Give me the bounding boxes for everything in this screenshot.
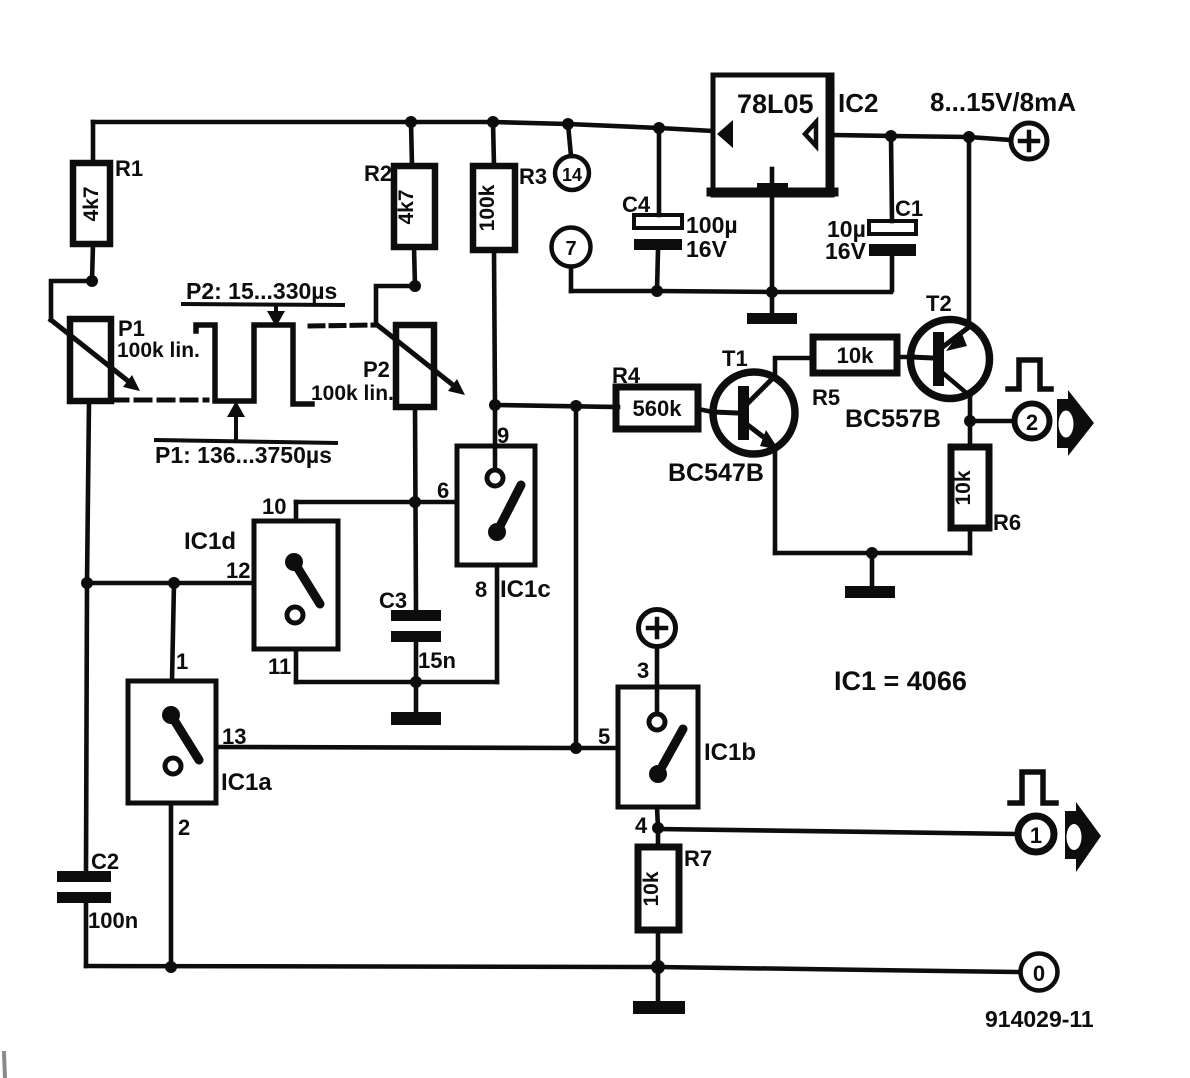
wire R2 bottom xyxy=(414,247,415,286)
wire C1 bottom xyxy=(890,256,895,290)
annotation P1 range xyxy=(155,401,336,468)
transistor T2 BC557B xyxy=(845,291,990,433)
svg-text:P1: P1 xyxy=(118,316,145,341)
svg-text:IC1a: IC1a xyxy=(221,769,272,796)
node junction R3/R4/pin9 xyxy=(489,399,501,411)
svg-text:2: 2 xyxy=(1026,410,1038,435)
svg-text:T2: T2 xyxy=(926,291,952,316)
svg-text:78L05: 78L05 xyxy=(737,89,814,119)
wire C1 top xyxy=(891,136,892,221)
wire C4 bottom xyxy=(657,250,658,291)
svg-text:R2: R2 xyxy=(364,161,392,186)
wire P1 wiper loop xyxy=(51,281,92,320)
svg-text:R1: R1 xyxy=(115,156,143,181)
svg-text:8...15V/8mA: 8...15V/8mA xyxy=(930,87,1076,117)
wire pin1 xyxy=(172,583,174,681)
resistor R1 xyxy=(73,156,143,244)
node junction R2 top xyxy=(405,116,417,128)
wire R6 bottom xyxy=(968,528,973,553)
wire pin4 xyxy=(657,807,658,828)
potentiometer P2 xyxy=(311,324,465,407)
wire scan mark left edge xyxy=(4,1053,5,1078)
resistor R5 xyxy=(812,337,897,410)
output arrow 1 xyxy=(1065,802,1101,872)
svg-text:BC547B: BC547B xyxy=(668,459,764,487)
wire top supply rail xyxy=(93,122,713,131)
ground symbol under R7 xyxy=(633,967,685,1014)
wire pin5 stub xyxy=(576,746,618,751)
wire pin13 rail xyxy=(216,747,576,748)
node + terminal above IC1b xyxy=(639,610,676,647)
node pin 14 terminal xyxy=(555,124,589,190)
svg-text:R6: R6 xyxy=(993,510,1021,535)
output arrow 2 xyxy=(1057,390,1094,456)
svg-text:8: 8 xyxy=(475,577,487,602)
svg-text:C3: C3 xyxy=(379,588,407,613)
capacitor C1 xyxy=(825,196,923,264)
ground symbol under C3 xyxy=(391,682,441,725)
wire R3 top xyxy=(493,122,494,166)
pulse symbol output 2 xyxy=(1008,360,1051,389)
switch IC1c xyxy=(437,423,551,603)
wire pin11 down xyxy=(294,649,299,682)
svg-text:10k: 10k xyxy=(837,343,874,368)
svg-text:4k7: 4k7 xyxy=(395,189,418,224)
svg-text:7: 7 xyxy=(565,238,576,260)
svg-text:0: 0 xyxy=(1033,961,1045,986)
wire pin2 down xyxy=(169,803,174,967)
wire R1 bottom xyxy=(92,244,93,281)
annotation P2 range xyxy=(183,278,343,327)
wire R2 top xyxy=(411,122,412,166)
wire R5 to T2 base xyxy=(897,355,911,360)
svg-text:R3: R3 xyxy=(519,164,547,189)
svg-text:T1: T1 xyxy=(722,346,748,371)
svg-text:100µ: 100µ xyxy=(686,212,738,238)
wire pin3 xyxy=(655,647,660,714)
node junction pin12 xyxy=(81,577,93,589)
wire pin12 rail xyxy=(87,581,254,586)
node junction R7 bottom xyxy=(651,960,665,974)
svg-text:16V: 16V xyxy=(825,238,867,264)
waveform sketch xyxy=(196,325,312,404)
node junction C1 top xyxy=(885,130,897,142)
wire T2 emitter to supply rail xyxy=(967,137,972,326)
node junction pin1 drop xyxy=(168,577,180,589)
node output terminal 0 xyxy=(1021,954,1058,991)
switch IC1a xyxy=(128,649,272,840)
svg-text:914029-11: 914029-11 xyxy=(985,1006,1094,1032)
wire R7 bottom xyxy=(656,930,661,968)
svg-text:2: 2 xyxy=(178,815,190,840)
node junction T2 emitter xyxy=(963,131,975,143)
svg-text:IC2: IC2 xyxy=(838,88,878,118)
svg-text:4: 4 xyxy=(635,813,648,838)
wire R4 to T1 base xyxy=(698,409,713,412)
node junction IC2 gnd xyxy=(766,286,778,298)
capacitor C4 xyxy=(622,192,738,262)
wire left rail to C2 xyxy=(86,583,87,871)
wire C2 bottom to rail corner xyxy=(84,903,89,966)
wire output 1 rail xyxy=(658,829,1017,834)
node pin 7 terminal xyxy=(552,228,591,292)
node junction R2/P2 xyxy=(409,280,421,292)
svg-text:BC557B: BC557B xyxy=(845,405,941,433)
node junction R3 top xyxy=(487,116,499,128)
svg-text:4k7: 4k7 xyxy=(80,186,103,221)
svg-text:R4: R4 xyxy=(612,363,641,388)
wire dashed bottom level xyxy=(113,398,207,403)
wire dashed top level xyxy=(310,325,375,326)
pulse symbol output 1 xyxy=(1010,772,1056,803)
wire T1 emitter down xyxy=(773,449,778,553)
wire R7 top xyxy=(656,828,661,847)
wire R1 top xyxy=(91,122,96,163)
svg-text:C2: C2 xyxy=(91,849,119,874)
svg-text:100k lin.: 100k lin. xyxy=(311,382,394,405)
wire T1 collector to R5 xyxy=(775,358,813,376)
wire C3 bottom xyxy=(414,642,419,682)
svg-text:14: 14 xyxy=(562,165,582,185)
svg-text:C4: C4 xyxy=(622,192,651,217)
wire node to output 2 xyxy=(970,419,1014,424)
svg-text:1: 1 xyxy=(1030,823,1042,848)
capacitor C3 xyxy=(379,588,456,673)
resistor R4 xyxy=(612,363,698,429)
wire IC2 output rail xyxy=(834,135,1011,140)
wire P2 wiper loop xyxy=(376,286,415,324)
svg-text:10k: 10k xyxy=(952,470,975,505)
svg-text:9: 9 xyxy=(497,423,509,448)
wire node to R4 xyxy=(495,405,618,407)
svg-text:100k: 100k xyxy=(476,184,499,231)
svg-text:C1: C1 xyxy=(895,196,923,221)
svg-text:3: 3 xyxy=(637,658,649,683)
svg-text:12: 12 xyxy=(226,558,250,583)
svg-text:10: 10 xyxy=(262,494,286,519)
node junction IC1a pin2 xyxy=(165,961,177,973)
svg-text:R5: R5 xyxy=(812,385,840,410)
wire T2 collector down xyxy=(968,396,973,421)
switch IC1b xyxy=(598,658,756,838)
wire pin6 rail xyxy=(296,500,457,505)
wire pin8 down xyxy=(495,565,500,682)
wire emitter ground rail xyxy=(775,551,970,556)
capacitor C2 xyxy=(57,849,138,933)
node junction C4 gnd xyxy=(651,285,663,297)
resistor R2 xyxy=(364,161,435,247)
svg-text:P1: 136...3750µs: P1: 136...3750µs xyxy=(155,442,332,468)
node junction R1/P1 xyxy=(86,275,98,287)
node junction pin5 drop xyxy=(570,400,582,412)
wire R3 bottom long xyxy=(494,250,495,405)
wire vertical drop to pin5 xyxy=(574,406,579,748)
node junction pin14 xyxy=(562,118,574,130)
resistor R6 xyxy=(951,447,1021,535)
svg-text:560k: 560k xyxy=(633,396,683,421)
svg-text:16V: 16V xyxy=(686,236,728,262)
svg-text:11: 11 xyxy=(268,654,291,679)
wire P2 bottom to pin6 rail and C3 xyxy=(415,407,416,610)
wire analog ground rail xyxy=(571,291,891,292)
op-amp IC2 78L05 regulator xyxy=(711,75,878,195)
switch IC1d xyxy=(184,494,338,679)
svg-text:6: 6 xyxy=(437,478,449,503)
node junction C4 top xyxy=(653,122,665,134)
wire node to R6 xyxy=(968,421,973,447)
ground symbol T1 emitter xyxy=(845,553,895,598)
wire pin9 xyxy=(493,405,498,470)
svg-text:IC1c: IC1c xyxy=(500,576,551,603)
svg-text:IC1b: IC1b xyxy=(704,739,756,766)
svg-text:P2: 15...330µs: P2: 15...330µs xyxy=(186,278,337,304)
node output terminal 2 xyxy=(1015,404,1050,439)
wire bottom 0V rail xyxy=(86,966,1020,972)
resistor R7 xyxy=(638,846,712,930)
wire pin11 rail xyxy=(296,680,497,685)
transistor T1 BC547B xyxy=(668,346,795,487)
wire IC2 ground lead xyxy=(770,196,775,292)
node junction pin4/R7 xyxy=(652,822,664,834)
svg-text:IC1d: IC1d xyxy=(184,528,236,555)
svg-text:15n: 15n xyxy=(418,648,456,673)
svg-text:R7: R7 xyxy=(684,846,712,871)
node junction gnd T1/R6 xyxy=(866,547,878,559)
node junction C3 gnd xyxy=(410,676,422,688)
node + supply terminal xyxy=(930,87,1076,159)
wire C4 top xyxy=(657,128,662,215)
node junction T2 collector output xyxy=(964,415,976,427)
svg-text:100k lin.: 100k lin. xyxy=(117,339,200,362)
svg-text:5: 5 xyxy=(598,724,610,749)
svg-text:10k: 10k xyxy=(640,871,663,906)
svg-text:P2: P2 xyxy=(363,357,390,382)
ground symbol under IC2 xyxy=(747,292,797,324)
node junction pin5 xyxy=(570,742,582,754)
resistor R3 xyxy=(473,164,547,250)
node junction P2/pin6 xyxy=(409,496,421,508)
potentiometer P1 xyxy=(51,316,200,401)
wire pin10 xyxy=(294,502,299,521)
svg-text:IC1 = 4066: IC1 = 4066 xyxy=(834,666,967,696)
svg-text:100n: 100n xyxy=(88,908,138,933)
svg-text:1: 1 xyxy=(176,649,188,674)
wire left rail P1 to pin12 node xyxy=(87,401,89,583)
node output terminal 1 xyxy=(1018,816,1054,852)
